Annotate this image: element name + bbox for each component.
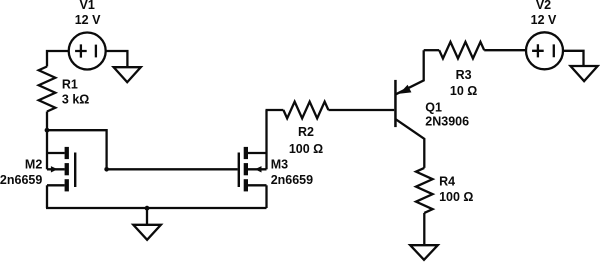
ground (V1) — [114, 67, 141, 82]
voltage source V1 — [69, 33, 106, 70]
transistor Q1 (PNP) — [394, 50, 424, 168]
wire M2 source down to rail — [46, 185, 48, 208]
wire R2 to Q1 base — [328, 109, 394, 111]
transistor M2 (NMOS, gate on right) — [47, 130, 76, 191]
wire V1 right to ground — [106, 51, 128, 67]
node junction dot (rail / ground) — [145, 206, 150, 211]
svg-text:R2: R2 — [298, 125, 314, 139]
node junction dot (gate net) — [104, 167, 109, 172]
node junction dot (R1 / M2 drain / gate link) — [45, 128, 50, 133]
wire R3 to V2 — [484, 49, 526, 51]
svg-text:M2: M2 — [25, 157, 42, 171]
resistor R1 — [39, 67, 56, 112]
transistor M3 (NMOS, gate on left) — [238, 110, 267, 191]
svg-text:2n6659: 2n6659 — [0, 173, 42, 187]
svg-text:2n6659: 2n6659 — [271, 173, 313, 187]
svg-text:Q1: Q1 — [425, 101, 442, 115]
wire R4 to ground — [423, 213, 425, 245]
resistor R4 — [416, 168, 433, 213]
wire M3 source down to rail — [265, 185, 267, 208]
voltage source V2 — [526, 32, 563, 69]
svg-text:10 Ω: 10 Ω — [450, 84, 477, 98]
ground (V2) — [571, 66, 598, 81]
resistor R3 — [439, 42, 484, 59]
wire V2 right to ground — [563, 51, 584, 66]
wire rail dot to ground — [146, 208, 148, 225]
svg-text:R1: R1 — [62, 78, 78, 92]
svg-text:R3: R3 — [456, 68, 472, 82]
svg-text:V1: V1 — [80, 0, 95, 12]
svg-text:V2: V2 — [536, 0, 551, 12]
wire node to gate link (over and down) — [47, 130, 107, 169]
svg-text:12 V: 12 V — [531, 13, 557, 27]
ground (rail) — [133, 225, 161, 240]
svg-text:R4: R4 — [439, 174, 455, 188]
wire ground rail — [46, 207, 267, 209]
svg-text:100 Ω: 100 Ω — [289, 142, 323, 156]
wire V1 left to R1 top — [47, 51, 69, 67]
svg-text:2N3906: 2N3906 — [425, 115, 469, 129]
wire gate net to M3 gate — [107, 168, 238, 170]
ground (R4) — [410, 245, 438, 260]
resistor R2 — [283, 102, 328, 119]
wire R1 bottom to node — [46, 112, 48, 131]
svg-text:100 Ω: 100 Ω — [439, 190, 473, 204]
svg-text:3 kΩ: 3 kΩ — [62, 93, 89, 107]
wire M3 drain corner to R2 — [266, 109, 284, 111]
wire emitter corner to R3 — [424, 49, 440, 51]
svg-text:12 V: 12 V — [75, 13, 101, 27]
svg-text:M3: M3 — [271, 157, 288, 171]
